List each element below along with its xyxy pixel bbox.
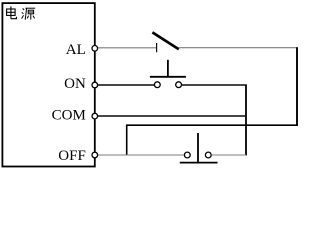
switch S fixed contact tick xyxy=(156,43,158,52)
wire ON row right (button SB1 to bus x=246) xyxy=(182,84,247,86)
terminal label ON xyxy=(64,76,86,92)
wire OFF row right (button SB2 to bus x=246) xyxy=(212,154,247,156)
terminal ON circle xyxy=(92,82,98,88)
pushbutton SB1 left contact circle xyxy=(154,82,160,88)
pushbutton SB1 bridge bar xyxy=(150,76,186,78)
wire horizontal y=126 (right bus to left drop) xyxy=(126,124,298,126)
terminal AL circle xyxy=(92,46,98,52)
switch S blade (open knife switch) xyxy=(152,32,178,49)
terminal OFF circle xyxy=(92,152,98,158)
terminal label COM xyxy=(52,108,86,124)
pushbutton SB2 bridge bar (closed, below contacts) xyxy=(180,162,218,164)
wire ON row left (terminal to button SB1) xyxy=(97,84,154,86)
pushbutton SB2 right contact circle xyxy=(205,152,211,158)
svg-text:COM: COM xyxy=(52,108,86,124)
wire AL row right (switch to right bus) xyxy=(179,47,297,49)
wire COM row (terminal to bus x=246) xyxy=(97,115,246,117)
svg-text:AL: AL xyxy=(66,42,86,58)
svg-text:OFF: OFF xyxy=(58,148,86,164)
pushbutton SB2 left contact circle xyxy=(184,152,190,158)
label 电源 (drawn glyph strokes: 电) xyxy=(7,6,17,18)
terminal label OFF xyxy=(58,148,86,164)
power supply box 电源 xyxy=(2,3,94,166)
pushbutton SB2 (OFF, normally closed) actuator stem xyxy=(197,133,199,163)
terminal COM circle xyxy=(92,113,98,119)
wire OFF row left (terminal to button SB2) xyxy=(97,154,184,156)
label 电源 (drawn glyph strokes: 源) xyxy=(22,8,36,20)
wire right bus vertical (AL side, x=297) xyxy=(296,47,298,126)
wire left drop vertical x=127 (down to OFF row) xyxy=(126,125,128,155)
wire mid bus vertical x=246 (ON row down to OFF row) xyxy=(245,85,247,156)
pushbutton SB1 right contact circle xyxy=(176,82,182,88)
pushbutton SB1 (ON, normally open) actuator stem xyxy=(167,60,169,77)
terminal label AL xyxy=(66,42,86,58)
wire AL row left (terminal to switch contact) xyxy=(97,47,156,49)
svg-text:ON: ON xyxy=(64,76,86,92)
